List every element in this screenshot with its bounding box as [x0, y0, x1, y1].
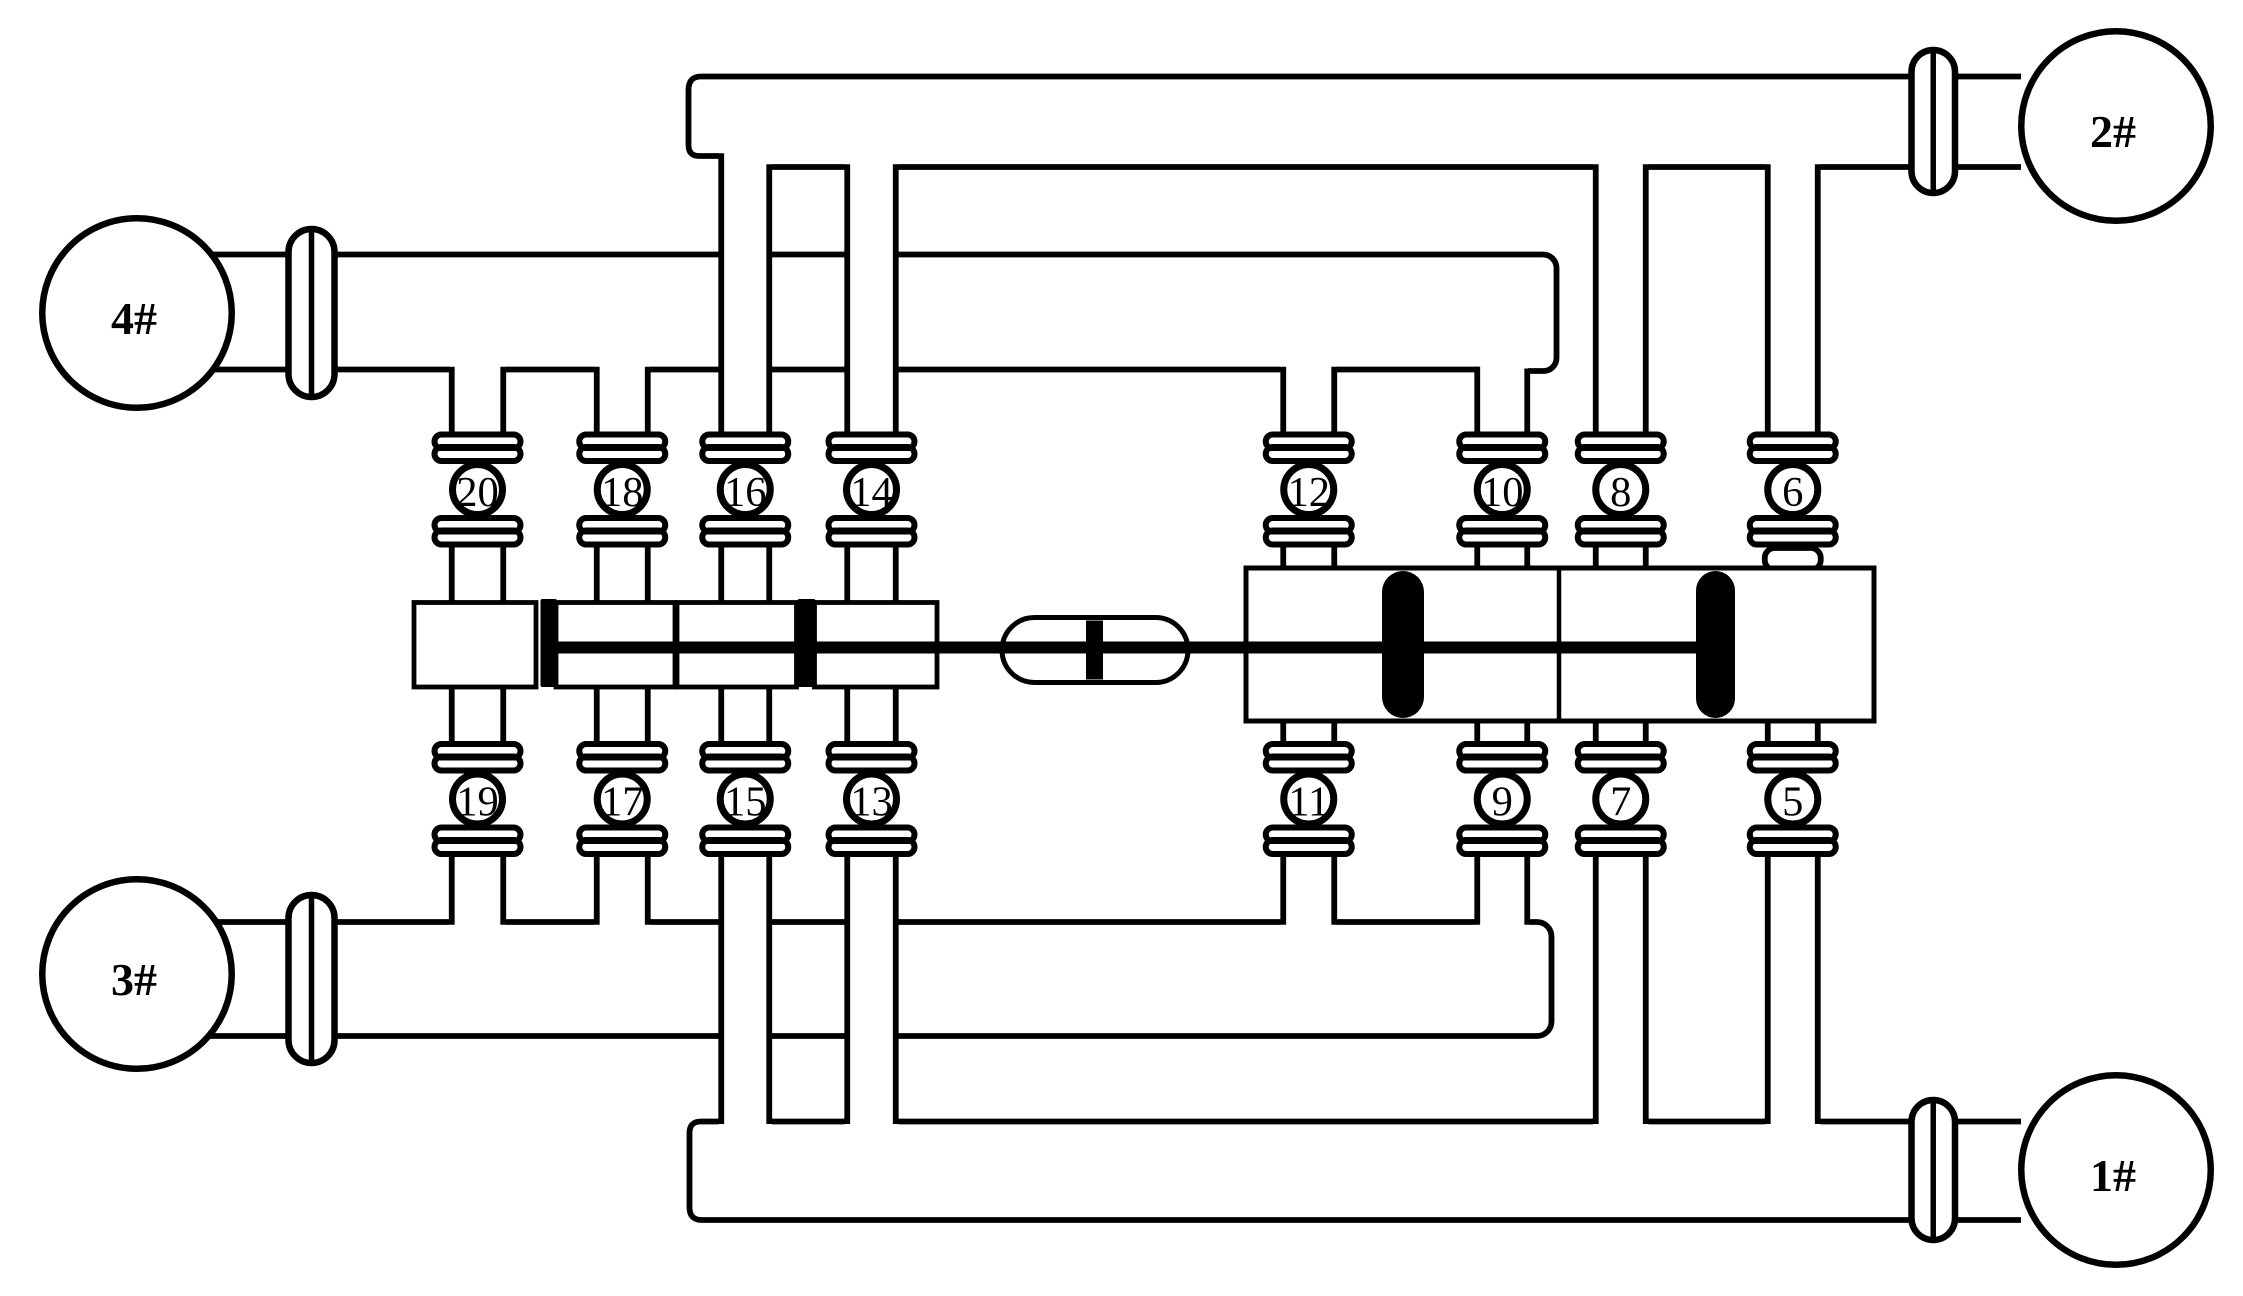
valve 20 — [453, 465, 503, 515]
valve 12 — [1284, 465, 1334, 515]
flange above valve 12 — [1266, 435, 1352, 449]
wire bottom manifold inner boundary between valve13 and valve7 pipes — [899, 1119, 1594, 1125]
wire pipe from valve 9 down to 3# line — [1474, 852, 1480, 925]
wire pipe from 4# pipe bend down to valve 10 — [1474, 367, 1480, 437]
wire pipe from top manifold down to valve 6 — [1765, 164, 1771, 437]
wire 4# steam pipe top line from valve14 pipe with bend down into valve 10 pipe — [899, 255, 1557, 372]
svg-text:7: 7 — [1610, 779, 1631, 826]
svg-text:8: 8 — [1610, 469, 1631, 516]
flange below valve 12 — [1266, 518, 1352, 532]
valve 13 — [847, 774, 897, 824]
wire bottom manifold outer boundary (steam pipe to machine 1#) — [690, 1122, 2022, 1221]
svg-text:12: 12 — [1288, 469, 1331, 516]
flange above valve 14 — [829, 435, 915, 449]
wire top manifold outer boundary (steam pipe to machine 2#) — [689, 77, 2022, 157]
wire 4# steam pipe bottom line between valve16 and valve14 pipes — [772, 367, 845, 373]
wire stub from left block down to bottom valve column D — [844, 685, 850, 747]
left turbine block section 1 — [414, 603, 536, 688]
wire pipe from top manifold down to valve 8 — [1593, 164, 1599, 437]
wire 3# steam pipe top line between valve11 and valve9 branches — [1337, 919, 1475, 925]
left turbine block section 3 — [677, 603, 797, 688]
left block black coupling bar 1 — [541, 599, 558, 687]
valve 14 — [847, 465, 897, 515]
flange above valve 18 — [579, 435, 665, 449]
wire stub from valve column B into left turbine block — [594, 545, 600, 606]
wire bottom manifold inner boundary between valve15 and valve13 pipes — [772, 1119, 845, 1125]
flange above valve 9 — [1459, 744, 1545, 758]
flange above valve 15 — [702, 744, 788, 758]
svg-text:1#: 1# — [2090, 1150, 2136, 1201]
machine 3# — [42, 879, 232, 1069]
svg-text:18: 18 — [601, 469, 644, 516]
wire stub from valve column D into left turbine block — [844, 545, 850, 606]
valve 7 — [1596, 774, 1646, 824]
flange above valve 7 — [1578, 744, 1664, 758]
wire 4# steam pipe top line between valve16 and valve14 pipes — [772, 252, 845, 258]
wire top manifold inner boundary from valve6 pipe to machine 2# — [1821, 164, 2022, 170]
flange above valve 13 — [829, 744, 915, 758]
flange above valve 6 — [1750, 435, 1836, 449]
wire pipe from 4# line down to valve 20 — [449, 367, 455, 437]
left block black coupling bar 2 — [798, 599, 816, 687]
flange below valve 18 — [579, 518, 665, 532]
shaft line — [549, 642, 1734, 654]
svg-text:9: 9 — [1492, 779, 1513, 826]
valve 16 — [720, 465, 770, 515]
flange below valve 16 — [702, 518, 788, 532]
flange on 4# machine pipe — [289, 229, 335, 397]
valve 8 — [1596, 465, 1646, 515]
flange above valve 10 — [1459, 435, 1545, 449]
wire pipe from top manifold down to valve 16 — [718, 153, 724, 437]
flange below valve 13 — [829, 828, 915, 842]
wire stub from left block down to bottom valve column B — [594, 685, 600, 747]
wire top manifold inner boundary between valve16 and valve14 pipes — [772, 164, 845, 170]
right block divider line — [1557, 568, 1562, 721]
valve 9 — [1477, 774, 1527, 824]
wire stub from right block down to bottom valve column F — [1474, 719, 1480, 747]
machine 2# — [2021, 31, 2211, 221]
wire pipe from 4# line down to valve 12 — [1280, 367, 1286, 437]
wire top manifold inner boundary between valve14 and valve8 pipes — [899, 164, 1594, 170]
valve 10 — [1477, 465, 1527, 515]
valve 11 — [1284, 774, 1334, 824]
wire pipe from valve 17 down to 3# line — [594, 852, 600, 925]
flange below valve 7 — [1578, 828, 1664, 842]
valve 15 — [720, 774, 770, 824]
wire stub from valve column A into left turbine block — [449, 545, 455, 606]
capsule internal black bar — [1086, 621, 1103, 680]
flange below valve 6 — [1750, 518, 1836, 532]
svg-text:19: 19 — [456, 779, 499, 826]
wire stub from valve column F into right block — [1474, 545, 1480, 571]
wire pipe from top manifold down to valve 14 — [844, 164, 850, 437]
svg-text:10: 10 — [1481, 469, 1524, 516]
wire 4# steam pipe bottom line between valve14 pipe and valve12 branch — [899, 367, 1281, 373]
svg-text:5: 5 — [1782, 779, 1803, 826]
svg-text:11: 11 — [1288, 779, 1329, 826]
flange below valve 17 — [579, 828, 665, 842]
wire 3# steam pipe top line between valve15 and valve13 pipes — [772, 919, 845, 925]
wire bottom manifold inner boundary from valve5 pipe to machine 1# — [1821, 1119, 2022, 1125]
flange above valve 8 — [1578, 435, 1664, 449]
wire pipe from valve 19 down to 3# line — [449, 852, 455, 925]
flange above valve 20 — [435, 435, 521, 449]
flange below valve 9 — [1459, 828, 1545, 842]
svg-text:2#: 2# — [2090, 106, 2136, 157]
flange above valve 5 — [1750, 744, 1836, 758]
svg-text:4#: 4# — [111, 293, 157, 344]
svg-text:3#: 3# — [111, 954, 157, 1005]
wire pipe from 4# line down to valve 18 — [594, 367, 600, 437]
flange below valve 19 — [435, 828, 521, 842]
wire 3# steam pipe top line between valve13 pipe and valve11 branch — [899, 919, 1281, 925]
machine 1# — [2021, 1075, 2211, 1265]
flange on 3# machine pipe — [289, 895, 335, 1063]
wire 3# steam pipe rounded right end cap — [1530, 922, 1552, 1036]
wire stub from valve column G into right block — [1593, 545, 1599, 571]
svg-text:15: 15 — [724, 779, 767, 826]
valve 5 — [1768, 774, 1818, 824]
svg-text:17: 17 — [601, 779, 644, 826]
wire 4# steam pipe bottom line between valve20 and valve18 branches — [506, 367, 594, 373]
left turbine block section 4 — [815, 603, 938, 688]
wire pipe from valve 15 down to bottom manifold — [718, 852, 724, 1125]
valve 18 — [597, 465, 647, 515]
wire top manifold inner boundary between valve8 and valve6 pipes — [1649, 164, 1766, 170]
wire 3# steam pipe bottom line from machine 3# to valve15 pipe — [206, 1033, 719, 1039]
machine 4# — [42, 218, 232, 408]
wire stub from left block down to bottom valve column A — [449, 685, 455, 747]
left turbine block section 2 — [556, 603, 675, 688]
flange above valve 16 — [702, 435, 788, 449]
flange below valve 10 — [1459, 518, 1545, 532]
flange above valve 19 — [435, 744, 521, 758]
right block outline — [1246, 568, 1874, 721]
wire stadium stub below valve 6 into right block — [1765, 548, 1821, 570]
flange below valve 8 — [1578, 518, 1664, 532]
wire stub from valve column E into right block — [1280, 545, 1286, 571]
valve 6 — [1768, 465, 1818, 515]
svg-text:20: 20 — [456, 469, 499, 516]
wire stub from valve column C into left turbine block — [718, 545, 724, 606]
wire pipe from valve 5 down to bottom manifold — [1765, 852, 1771, 1125]
wire pipe from valve 13 down to bottom manifold — [844, 852, 850, 1125]
wire stub from right block down to bottom valve column G — [1593, 719, 1599, 747]
svg-text:6: 6 — [1782, 469, 1803, 516]
valve 17 — [597, 774, 647, 824]
wire stub from right block down to bottom valve column H — [1765, 719, 1771, 747]
wire 4# steam pipe top line from machine 4# — [206, 252, 719, 258]
flange below valve 14 — [829, 518, 915, 532]
right block black rotor bar 1 — [1382, 571, 1424, 718]
wire pipe from valve 7 down to bottom manifold — [1593, 852, 1599, 1125]
wire stub from left block down to bottom valve column C — [718, 685, 724, 747]
shaft capsule coupling — [1002, 618, 1188, 683]
flange below valve 5 — [1750, 828, 1836, 842]
wire stub from right block down to bottom valve column E — [1280, 719, 1286, 747]
flange on 2# machine pipe — [1912, 50, 1956, 193]
svg-text:14: 14 — [850, 469, 893, 516]
valve 19 — [453, 774, 503, 824]
svg-text:16: 16 — [724, 469, 767, 516]
wire 3# steam pipe bottom line from valve13 pipe to end cap — [899, 1033, 1538, 1039]
flange on 1# machine pipe — [1912, 1100, 1956, 1240]
wire bottom manifold inner boundary between valve7 and valve5 pipes — [1649, 1119, 1766, 1125]
flange above valve 17 — [579, 744, 665, 758]
flange above valve 11 — [1266, 744, 1352, 758]
flange below valve 11 — [1266, 828, 1352, 842]
wire pipe from valve 11 down to 3# line — [1280, 852, 1286, 925]
wire 3# steam pipe top line between valve19 and valve17 branches — [506, 919, 594, 925]
flange below valve 20 — [435, 518, 521, 532]
wire 4# steam pipe bottom line between valve18 branch and valve16 pipe — [651, 367, 719, 373]
right block black rotor bar 2 — [1696, 571, 1735, 718]
wire 3# steam pipe top line between valve17 branch and valve15 pipe — [651, 919, 719, 925]
svg-text:13: 13 — [850, 779, 893, 826]
wire 4# steam pipe bottom line from machine 4# to valve 20 branch — [206, 367, 449, 373]
wire 4# steam pipe bottom line from valve12 branch to valve10 bend — [1337, 367, 1479, 373]
wire 3# steam pipe top line from machine 3# to valve 19 branch — [206, 919, 449, 925]
flange below valve 15 — [702, 828, 788, 842]
wire 3# steam pipe bottom line between valve15 and valve13 pipes — [772, 1033, 845, 1039]
